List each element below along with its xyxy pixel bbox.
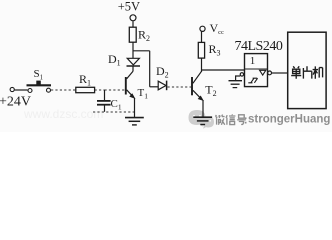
svg-text:74LS240: 74LS240 <box>235 39 283 54</box>
svg-text:S1: S1 <box>34 68 44 82</box>
svg-text:T2: T2 <box>205 82 216 98</box>
svg-text:+24V: +24V <box>0 95 31 110</box>
svg-text:Vcc: Vcc <box>210 21 225 36</box>
svg-text:T1: T1 <box>138 87 149 101</box>
svg-text:strongerHuang: strongerHuang <box>248 114 330 126</box>
svg-text:www.dzsc.com: www.dzsc.com <box>23 107 103 121</box>
svg-text:D2: D2 <box>156 64 169 80</box>
svg-text:+5V: +5V <box>118 0 140 13</box>
svg-text:C1: C1 <box>111 98 122 112</box>
svg-text:1: 1 <box>250 55 256 67</box>
svg-text:R1: R1 <box>79 72 91 88</box>
svg-text:R2: R2 <box>138 28 150 44</box>
svg-text:R3: R3 <box>209 42 221 58</box>
svg-text:D1: D1 <box>108 52 121 68</box>
